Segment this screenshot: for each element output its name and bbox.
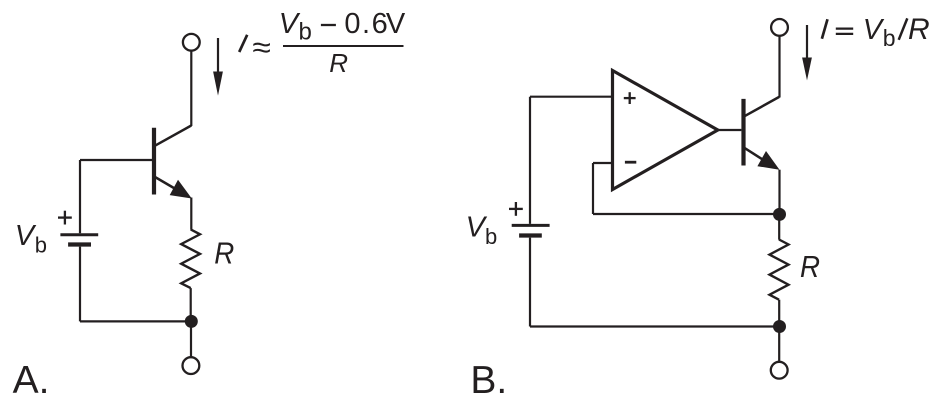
label I current B — [822, 19, 828, 39]
wire battery bottom B — [529, 238, 531, 327]
label slash B — [899, 18, 908, 39]
wire left down B — [529, 97, 531, 224]
wire node to resistor B — [778, 214, 780, 239]
svg-text:V: V — [15, 220, 37, 252]
svg-text:B.: B. — [470, 359, 507, 402]
junction node emitter B — [773, 208, 786, 221]
wire bottom B — [530, 325, 780, 327]
wire node to terminal A — [190, 321, 192, 357]
resistor R2 — [770, 240, 789, 300]
current arrow A — [217, 38, 219, 80]
wire node to terminal B — [778, 327, 780, 363]
svg-text:0.6: 0.6 — [344, 8, 389, 40]
transistor Q1 collector — [155, 126, 191, 146]
wire base A — [80, 159, 152, 161]
svg-text:V: V — [386, 8, 406, 40]
battery V1 plus sign — [58, 211, 72, 225]
svg-text:b: b — [299, 18, 312, 45]
wire feedback horizontal B — [593, 213, 780, 215]
transistor Q2 collector — [745, 97, 780, 116]
wire op-amp output to base — [718, 129, 742, 131]
wire emitter to node B — [778, 170, 780, 214]
resistor R1 — [181, 229, 200, 288]
transistor Q1 emitter arrowhead — [170, 180, 192, 199]
op-amp plus input sign — [624, 92, 636, 104]
wire battery bottom A — [79, 247, 81, 322]
current arrow B — [806, 25, 808, 66]
svg-text:V: V — [279, 8, 301, 40]
wire bottom A — [80, 320, 191, 322]
battery V2 short plate — [519, 233, 542, 237]
svg-text:R: R — [800, 249, 820, 284]
svg-text:V: V — [863, 14, 885, 46]
transistor Q1 base bar — [152, 128, 156, 195]
battery V2 long plate — [512, 224, 550, 227]
svg-text:R: R — [214, 236, 234, 271]
wire collector top A — [190, 51, 192, 126]
svg-text:b: b — [883, 25, 896, 51]
wire emitter to resistor A — [190, 198, 192, 230]
svg-text:A.: A. — [13, 359, 50, 402]
svg-text:R: R — [908, 13, 930, 46]
wire plus input B — [530, 96, 611, 98]
terminal bottom B — [771, 362, 788, 379]
transistor Q2 emitter — [745, 148, 773, 166]
terminal top A — [183, 34, 200, 51]
wire minus input B — [593, 162, 611, 164]
terminal top B — [771, 19, 788, 36]
junction node A — [185, 315, 198, 328]
label I current A — [239, 35, 247, 52]
wire left down A — [79, 160, 81, 233]
svg-text:R: R — [329, 48, 348, 78]
svg-text:≈: ≈ — [253, 31, 272, 64]
fraction bar A — [283, 45, 404, 47]
wire feedback vertical B — [592, 163, 594, 214]
op-amp U1 — [613, 71, 718, 190]
battery V1 short plate — [68, 242, 91, 246]
wire resistor to node A — [190, 288, 192, 321]
wire resistor to node B — [778, 300, 780, 327]
terminal bottom A — [183, 357, 200, 374]
svg-text:b: b — [35, 233, 47, 258]
op-amp minus input sign — [625, 161, 636, 164]
transistor Q2 base bar — [741, 99, 745, 166]
junction node bottom B — [773, 320, 786, 333]
battery V2 plus sign — [509, 202, 523, 216]
battery V1 long plate — [60, 233, 98, 236]
label equals B — [836, 27, 853, 29]
wire collector top B — [778, 36, 780, 97]
transistor Q1 emitter — [155, 177, 185, 195]
transistor Q2 emitter arrowhead — [757, 151, 779, 170]
svg-text:b: b — [485, 224, 497, 249]
